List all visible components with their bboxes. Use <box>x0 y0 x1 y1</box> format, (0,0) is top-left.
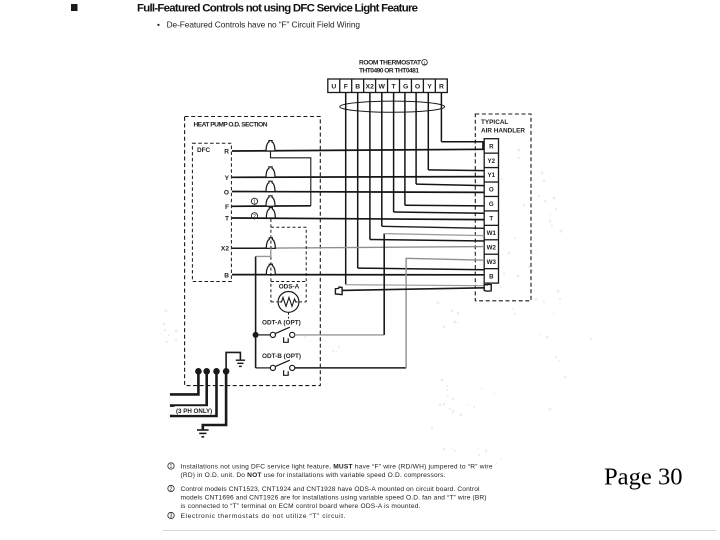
wire B to AH B <box>358 268 485 270</box>
svg-text:X2: X2 <box>366 83 375 90</box>
svg-text:AIR HANDLER: AIR HANDLER <box>481 128 525 135</box>
svg-text:W2: W2 <box>487 244 497 251</box>
3 PH ONLY label <box>175 406 214 415</box>
wire connector F <box>266 196 275 206</box>
svg-text:F: F <box>225 204 229 211</box>
svg-text:T: T <box>489 216 493 223</box>
wire Y row <box>232 176 484 179</box>
wire O row <box>232 191 484 194</box>
svg-text:O: O <box>224 189 229 196</box>
svg-text:1: 1 <box>170 464 173 470</box>
air handler dashed box <box>475 114 531 301</box>
svg-text:B: B <box>489 273 494 280</box>
ODT-A right wire (gray) <box>295 334 384 336</box>
wire F drop <box>345 93 347 285</box>
ODS-A sensor circle with resistor zigzag <box>278 292 299 319</box>
wire connector Y <box>266 167 275 177</box>
svg-text:X2: X2 <box>221 246 229 253</box>
DFC dashed box <box>192 143 231 281</box>
svg-text:(RD) in O.D. unit. Do NOT use: (RD) in O.D. unit. Do NOT use for instal… <box>181 472 446 479</box>
svg-text:ROOM THERMOSTAT: ROOM THERMOSTAT <box>359 60 421 67</box>
svg-text:O: O <box>415 83 420 90</box>
air handler terminal strip R Y2 Y1 O G T W1 W2 W3 B <box>484 139 498 283</box>
svg-text:Electronic thermostats do not: Electronic thermostats do not utilize “T… <box>181 513 346 520</box>
scan noise <box>159 149 592 466</box>
ODT-A riser to AH W1 <box>383 234 385 335</box>
wire W to AH W1 (gray) <box>382 226 484 228</box>
svg-text:HEAT PUMP O.D. SECTION: HEAT PUMP O.D. SECTION <box>194 122 268 129</box>
svg-text:ODT-B (OPT): ODT-B (OPT) <box>262 353 301 360</box>
svg-text:G: G <box>403 83 408 90</box>
ODT riser vertical <box>255 256 257 368</box>
ground symbol lower <box>197 430 209 437</box>
svg-text:ODT-A (OPT): ODT-A (OPT) <box>262 320 301 327</box>
wire Y drop <box>427 93 429 170</box>
wire X2 row <box>232 247 276 249</box>
svg-text:(3 PH ONLY): (3 PH ONLY) <box>176 408 212 415</box>
svg-text:R: R <box>224 149 229 156</box>
heat pump terminal rows <box>232 149 484 274</box>
power feed wires (3-phase) <box>170 371 226 429</box>
jumper R to F <box>271 151 311 206</box>
svg-text:models CNT1696 and CNT1926 are: models CNT1696 and CNT1926 are for insta… <box>181 494 487 501</box>
svg-text:2: 2 <box>253 214 256 220</box>
svg-text:ODS-A: ODS-A <box>279 284 300 291</box>
wire O drop <box>415 93 417 185</box>
scan speck top-left <box>71 4 78 11</box>
svg-text:W: W <box>378 83 385 90</box>
svg-text:is connected to “T” terminal o: is connected to “T” terminal on ECM cont… <box>181 503 421 510</box>
svg-text:Page 30: Page 30 <box>604 464 683 491</box>
svg-text:Installations not using DFC se: Installations not using DFC service ligh… <box>181 463 493 470</box>
wire F tail (gray) <box>346 285 484 286</box>
power wire L2 <box>170 371 207 405</box>
cable bundle ellipse <box>340 101 445 112</box>
svg-text:U: U <box>331 83 336 90</box>
power wire L1 <box>170 371 199 394</box>
wire G to AH G <box>405 204 484 207</box>
heat pump terminal letters <box>221 149 230 280</box>
wire T row <box>232 218 484 220</box>
svg-text:B: B <box>355 83 360 90</box>
left plug connector <box>335 287 342 295</box>
wire B row <box>232 274 484 276</box>
wire connector T <box>266 208 275 218</box>
svg-text:Y: Y <box>427 83 432 90</box>
wire R drop <box>440 93 442 142</box>
faint scan line bottom <box>163 530 716 532</box>
svg-text:DFC: DFC <box>197 147 211 154</box>
plug-to-plug T wire <box>342 288 485 291</box>
svg-text:W3: W3 <box>487 259 497 266</box>
thermostat drop wires F B X2 W T G O Y R <box>346 93 442 285</box>
ground symbol upper <box>236 360 245 366</box>
wire R to AH R <box>441 142 483 150</box>
svg-text:Y2: Y2 <box>488 158 496 165</box>
heat pump section dashed box <box>185 117 321 386</box>
thermostat terminal strip U F B X2 W T G O Y R <box>328 79 448 93</box>
wire B drop <box>357 93 359 269</box>
dashed T sensor leads to ODS-A <box>271 219 306 302</box>
svg-text:R: R <box>489 143 494 150</box>
svg-text:B: B <box>224 272 229 279</box>
svg-text:O: O <box>489 187 494 194</box>
wire T to AH T <box>394 212 485 213</box>
ODT-B riser to AH W3 (gray) <box>406 258 484 368</box>
power wire L3 <box>170 371 217 416</box>
wire connector O <box>266 181 275 191</box>
wire X2 to AH W2 <box>370 240 484 242</box>
svg-text:G: G <box>489 201 494 208</box>
svg-text:F: F <box>344 83 348 90</box>
svg-text:• De-Featured Controls have: • De-Featured Controls have no “F” Circu… <box>157 20 360 30</box>
svg-text:Control models CNT1523, CNT192: Control models CNT1523, CNT1924 and CNT1… <box>181 486 481 493</box>
svg-text:THT0490 OR THT0481: THT0490 OR THT0481 <box>359 68 419 75</box>
svg-text:W1: W1 <box>487 230 497 237</box>
right plug connector <box>484 284 491 291</box>
wire W drop <box>381 93 383 227</box>
air handler label <box>481 119 525 135</box>
wire G drop <box>404 93 406 206</box>
ODT-B switch <box>256 360 295 375</box>
svg-text:1: 1 <box>423 60 426 65</box>
note mark 2 at T <box>251 213 257 220</box>
svg-text:3: 3 <box>170 514 173 520</box>
svg-text:2: 2 <box>170 487 173 493</box>
power dots <box>195 368 229 375</box>
wire X2 drop <box>369 93 371 240</box>
wire connector X2 <box>266 238 275 248</box>
svg-text:TYPICAL: TYPICAL <box>481 119 508 126</box>
wire Y to AH Y2 <box>428 169 484 172</box>
wire connector B <box>266 264 275 274</box>
svg-text:Y1: Y1 <box>488 172 496 179</box>
svg-text:1: 1 <box>253 199 256 205</box>
title text <box>137 3 418 30</box>
room thermostat label <box>359 60 427 75</box>
svg-text:T: T <box>225 216 229 223</box>
ODT-B right wire <box>295 367 406 369</box>
wire O to AH O <box>416 184 484 186</box>
power ground wire <box>203 371 226 429</box>
X2 jog to ODT riser (gray) <box>256 248 271 256</box>
wire T drop <box>393 93 395 213</box>
note mark 1 at F <box>251 198 257 205</box>
notes text <box>168 463 493 520</box>
wire R row <box>232 149 484 151</box>
wire connector R <box>266 141 275 151</box>
wire F row <box>232 205 311 208</box>
svg-text:R: R <box>439 83 444 90</box>
svg-text:Full-Featured Controls not usi: Full-Featured Controls not using DFC Ser… <box>137 3 418 15</box>
thermostat-to-air-handler runs <box>358 142 485 270</box>
svg-text:Y: Y <box>225 175 230 182</box>
equipment ground branch <box>226 352 240 371</box>
ODT-A switch <box>253 327 295 342</box>
